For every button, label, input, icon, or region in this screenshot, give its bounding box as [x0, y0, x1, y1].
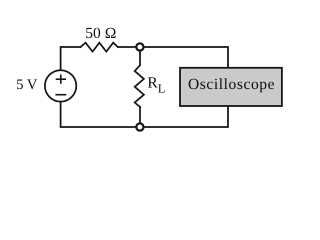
voltage source plus sign — [57, 75, 66, 83]
node B (bottom junction) — [136, 123, 143, 130]
wire top-left segment — [61, 47, 81, 70]
svg-text:Oscilloscope: Oscilloscope — [188, 76, 275, 93]
svg-text:50 Ω: 50 Ω — [85, 25, 116, 42]
voltage source V1 circle — [45, 70, 76, 101]
wire oscilloscope bottom to node B — [144, 105, 228, 127]
wire resistor to node A — [118, 46, 136, 48]
svg-text:5 V: 5 V — [16, 77, 38, 93]
resistor 50ohm zigzag — [81, 43, 118, 52]
node A (top junction) — [136, 43, 143, 50]
voltage source minus sign — [56, 94, 65, 96]
wire node A to right corner and down to oscilloscope top — [144, 47, 228, 69]
oscilloscope box — [180, 68, 282, 106]
resistor RL zigzag — [135, 65, 144, 107]
wire RL to bottom node B — [139, 107, 141, 124]
svg-text:RL: RL — [147, 74, 165, 95]
wire node A down to RL — [139, 50, 141, 65]
wire node B to source bottom — [61, 102, 136, 127]
